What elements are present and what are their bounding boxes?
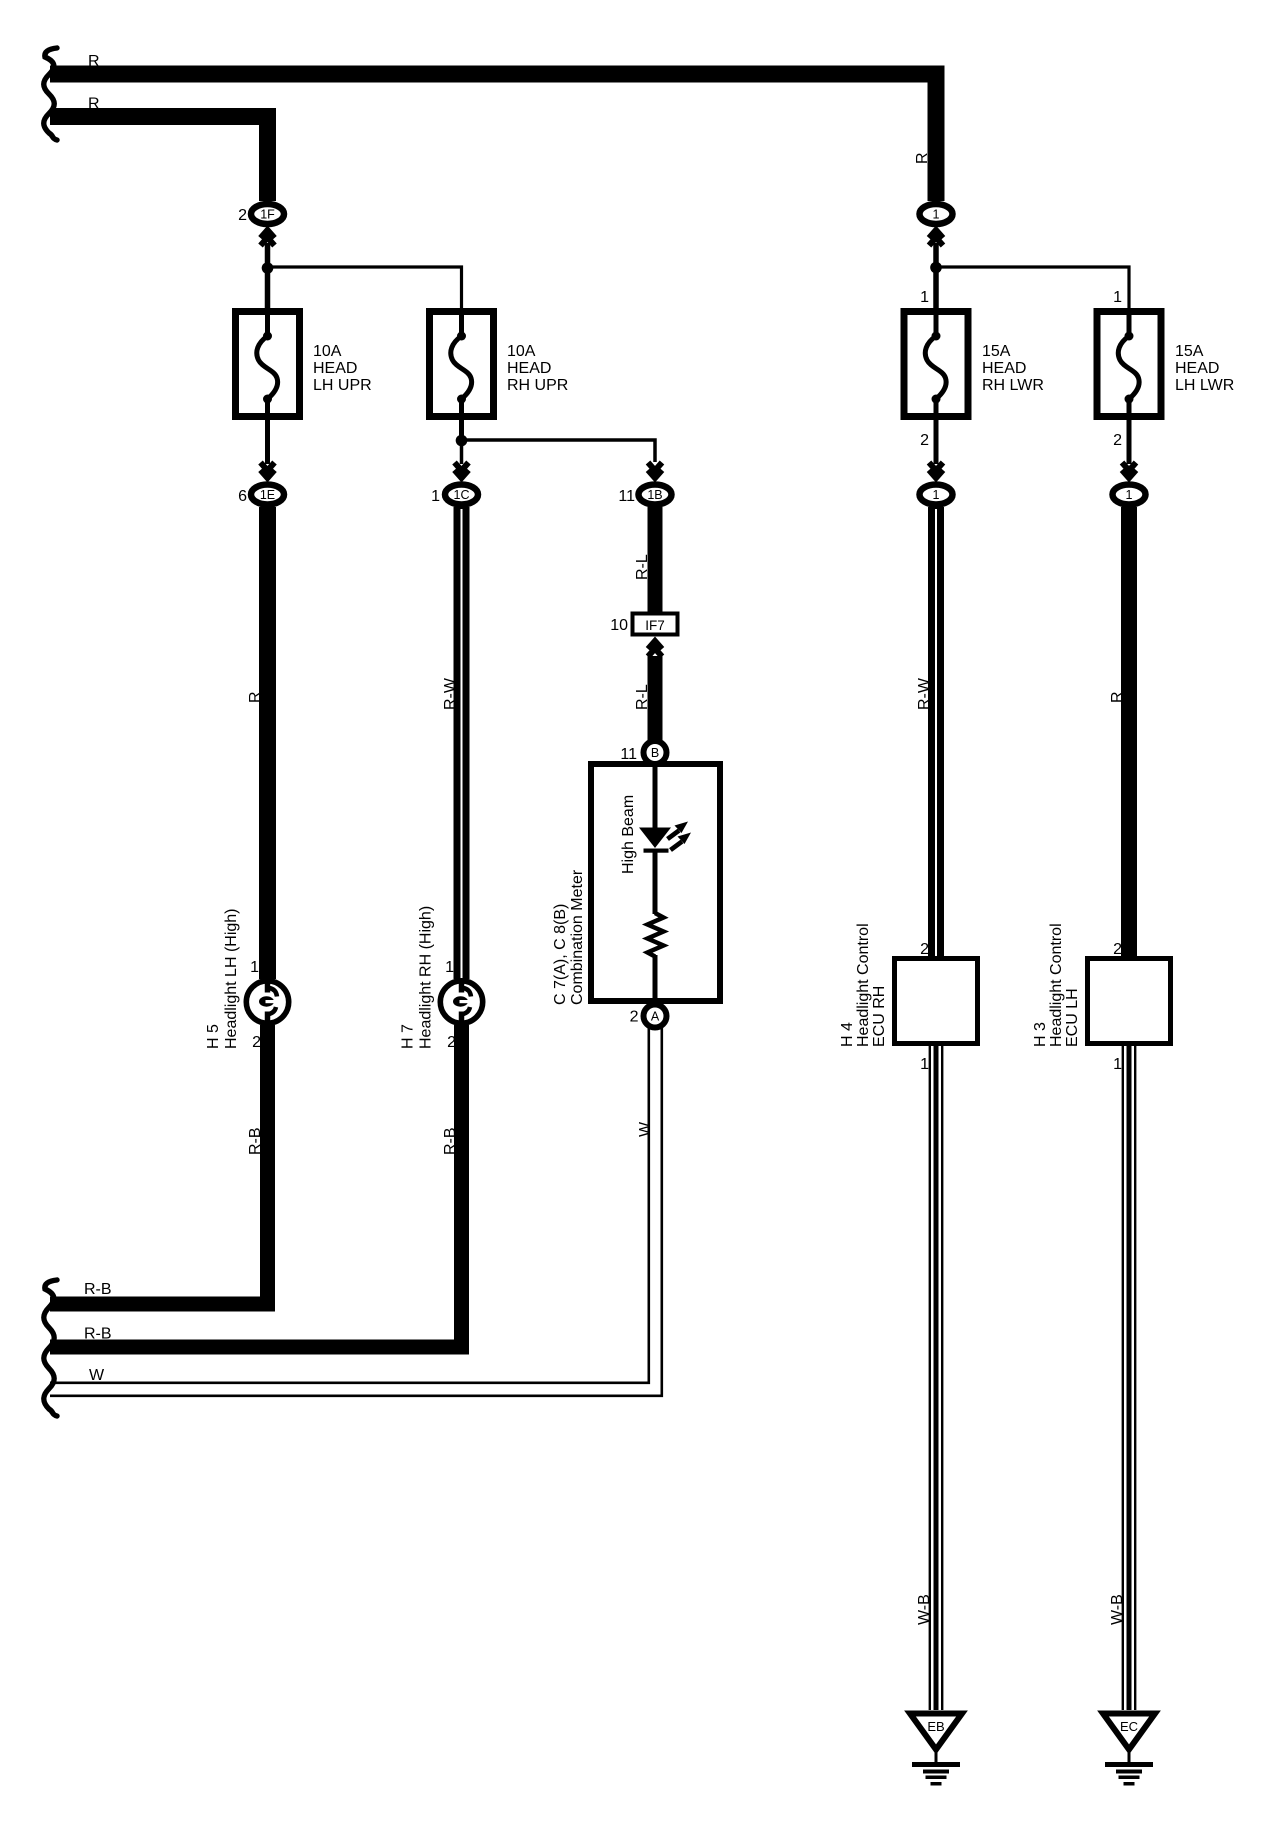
- label R rotated (ECU LH feed): [1109, 691, 1126, 703]
- fuse 10A HEAD LH UPR: [236, 311, 300, 423]
- pin 1 label LH LWR fuse: [1113, 289, 1122, 306]
- wire W-B from ECU LH to ground EC: [1123, 1046, 1135, 1710]
- pin 1 label at 1C: [431, 488, 440, 505]
- pin 6 label at 1E: [238, 488, 247, 505]
- svg-text:1: 1: [445, 959, 454, 976]
- meter pin B: [644, 741, 667, 764]
- label R (top feed 2): [88, 96, 100, 113]
- component label ECU RH: [871, 986, 888, 1047]
- svg-text:2: 2: [1113, 432, 1122, 449]
- svg-text:11: 11: [620, 746, 637, 763]
- wire R main feed (top, from break to right fuse block drop): [50, 74, 936, 201]
- component label Headlight Control (RH): [855, 923, 872, 1047]
- svg-text:H 7: H 7: [400, 1024, 417, 1049]
- svg-text:1F: 1F: [260, 208, 275, 222]
- svg-text:R-L: R-L: [634, 554, 651, 580]
- wire jumper to 1B branch: [462, 440, 656, 462]
- wire R-B from headlight RH to break: [50, 1025, 462, 1347]
- LED light arrow 1: [668, 822, 689, 840]
- svg-text:A: A: [651, 1010, 660, 1024]
- arrow up into right connector 1: [929, 230, 943, 246]
- component label Headlight LH (High): [223, 908, 240, 1049]
- svg-text:1E: 1E: [260, 488, 275, 502]
- svg-text:R: R: [1109, 691, 1126, 703]
- headlight control ECU LH box: [1088, 959, 1171, 1044]
- svg-text:6: 6: [238, 488, 247, 505]
- headlight control ECU RH box: [895, 959, 978, 1044]
- svg-text:B: B: [651, 746, 659, 760]
- ground EC: [1103, 1714, 1155, 1786]
- svg-text:R-B: R-B: [84, 1281, 112, 1298]
- pin 2 label ECU RH: [920, 941, 929, 958]
- component label ECU LH: [1064, 988, 1081, 1047]
- svg-text:R-L: R-L: [634, 684, 651, 710]
- pin 1 label ECU RH: [920, 1056, 929, 1073]
- pin 2 label RH LWR fuse: [920, 432, 929, 449]
- bulb H7 headlight RH high: [440, 981, 482, 1023]
- wire break squiggle top-left: [44, 48, 57, 140]
- svg-text:R: R: [88, 96, 100, 113]
- svg-text:W-B: W-B: [1109, 1594, 1126, 1625]
- component label Headlight Control (LH): [1048, 923, 1065, 1047]
- pin 1 label headlight RH: [445, 959, 454, 976]
- wire R-L 1B to IF7: [648, 507, 663, 613]
- svg-text:C 7(A), C 8(B): C 7(A), C 8(B): [552, 904, 569, 1005]
- combination meter box: [591, 764, 720, 1001]
- pin 2 label LH LWR fuse: [1113, 432, 1122, 449]
- label R-W rotated (H7 feed): [442, 677, 459, 710]
- label W rotated (meter out): [637, 1121, 654, 1137]
- svg-text:1: 1: [250, 959, 259, 976]
- fuse label 10A HEAD LH UPR: [313, 343, 372, 394]
- svg-text:1: 1: [1126, 488, 1133, 502]
- label R (top feed 1): [88, 53, 100, 70]
- arrow down into right connector (RH LWR): [929, 463, 943, 479]
- wire break squiggle bottom-left: [44, 1280, 57, 1416]
- bulb H5 headlight LH high: [246, 981, 288, 1023]
- svg-text:R: R: [247, 691, 264, 703]
- pin 1 label RH LWR fuse: [920, 289, 929, 306]
- junction connector IF7: [633, 614, 678, 635]
- svg-text:R: R: [914, 152, 931, 164]
- svg-text:2: 2: [920, 432, 929, 449]
- arrow up into IF7: [648, 641, 662, 657]
- svg-text:10A: 10A: [313, 343, 342, 360]
- svg-text:Headlight RH (High): Headlight RH (High): [418, 906, 435, 1049]
- meter internal resistor: [648, 913, 664, 957]
- junction node below 1F: [262, 262, 274, 274]
- svg-text:2: 2: [920, 941, 929, 958]
- meter pin A: [644, 1005, 667, 1028]
- wire RH UPR fuse to junction: [459, 420, 464, 443]
- wire W from meter pin A to break (hollow): [50, 1028, 662, 1396]
- component label H 3: [1032, 1022, 1049, 1047]
- wire from right arrow to junction: [933, 243, 939, 311]
- svg-text:R: R: [88, 53, 100, 70]
- label R-W rotated (ECU RH feed): [916, 677, 933, 710]
- svg-text:HEAD: HEAD: [1175, 360, 1219, 377]
- svg-text:10A: 10A: [507, 343, 536, 360]
- component label H 7: [400, 1024, 417, 1049]
- svg-text:Combination Meter: Combination Meter: [569, 869, 586, 1005]
- label R-L rotated (upper): [634, 554, 651, 580]
- pin 10 label at IF7: [610, 617, 628, 634]
- label W-B rotated (EC): [1109, 1594, 1126, 1625]
- svg-text:1: 1: [933, 488, 940, 502]
- pin 1 label ECU LH: [1113, 1056, 1122, 1073]
- svg-text:2: 2: [1113, 941, 1122, 958]
- fuse 15A HEAD RH LWR: [904, 311, 968, 423]
- wire R-L IF7 to meter pin B: [648, 656, 663, 743]
- svg-text:1: 1: [1113, 289, 1122, 306]
- component label H 5: [205, 1024, 222, 1049]
- wire R-W right oval to ECU RH: [928, 507, 944, 958]
- label High Beam rotated: [620, 795, 637, 874]
- pin 11 label at 1B: [618, 488, 635, 505]
- svg-text:LH UPR: LH UPR: [313, 377, 372, 394]
- svg-text:W-B: W-B: [916, 1594, 933, 1625]
- svg-text:R-W: R-W: [442, 677, 459, 710]
- connector 1 below RH LWR fuse: [920, 485, 953, 505]
- wire R second feed (to 1F drop): [50, 117, 268, 202]
- wire W-B from ECU RH to ground EB: [930, 1046, 942, 1710]
- wire R right oval to ECU LH: [1121, 507, 1137, 958]
- pin 11 label at meter pin B: [620, 746, 637, 763]
- svg-text:1: 1: [431, 488, 440, 505]
- label R-B (bottom feed 2): [84, 1326, 112, 1343]
- pin 1 label headlight LH: [250, 959, 259, 976]
- svg-text:HEAD: HEAD: [313, 360, 357, 377]
- fuse label 10A HEAD RH UPR: [507, 343, 568, 394]
- wire RH LWR fuse to arrow: [934, 420, 939, 464]
- pin 2 label ECU LH: [1113, 941, 1122, 958]
- label R-B rotated (H7 out): [442, 1127, 459, 1155]
- label R-B rotated (H5 out): [247, 1127, 264, 1155]
- wire LH LWR fuse to arrow: [1127, 420, 1132, 464]
- svg-text:15A: 15A: [1175, 343, 1204, 360]
- svg-text:1: 1: [920, 1056, 929, 1073]
- arrow down into 1C: [455, 463, 469, 479]
- LED cathode bar: [644, 849, 669, 853]
- component label Headlight RH (High): [418, 906, 435, 1049]
- pin 2 label headlight LH: [252, 1034, 261, 1051]
- connector 1F: [251, 204, 284, 224]
- ground EB: [910, 1714, 962, 1786]
- fuse 10A HEAD RH UPR: [430, 311, 494, 423]
- connector 1B: [639, 485, 672, 505]
- svg-text:1C: 1C: [454, 488, 470, 502]
- svg-text:2: 2: [630, 1009, 639, 1026]
- svg-text:Headlight Control: Headlight Control: [1048, 923, 1065, 1047]
- LED light arrow 2: [671, 833, 692, 851]
- label R-B (bottom feed 1): [84, 1281, 112, 1298]
- svg-text:R-B: R-B: [247, 1127, 264, 1155]
- component label C 7(A), C 8(B): [552, 904, 569, 1005]
- meter internal wire resistor to pin A: [653, 955, 658, 1004]
- svg-text:H 4: H 4: [839, 1022, 856, 1047]
- svg-text:HEAD: HEAD: [507, 360, 551, 377]
- arrow down into 1B: [648, 463, 662, 479]
- label R-L rotated (lower): [634, 684, 651, 710]
- junction node below right connector: [930, 262, 942, 274]
- component label Combination Meter: [569, 869, 586, 1005]
- connector 1 below LH LWR fuse: [1113, 485, 1146, 505]
- wire jumper to LH LWR fuse: [936, 267, 1129, 311]
- svg-text:ECU RH: ECU RH: [871, 986, 888, 1047]
- label R rotated (H5 feed): [247, 691, 264, 703]
- wire R to headlight LH: [259, 507, 276, 979]
- fuse label 15A HEAD LH LWR: [1175, 343, 1234, 394]
- svg-text:11: 11: [618, 488, 635, 505]
- pin 2 label headlight RH: [447, 1034, 456, 1051]
- fuse 15A HEAD LH LWR: [1097, 311, 1161, 423]
- svg-text:W: W: [637, 1121, 654, 1137]
- svg-text:2: 2: [252, 1034, 261, 1051]
- LED high beam indicator (triangle): [639, 828, 671, 849]
- junction node below RH UPR fuse: [456, 435, 468, 447]
- arrow down into right connector (LH LWR): [1122, 463, 1136, 479]
- meter internal wire LED to resistor: [653, 851, 658, 914]
- fuse label 15A HEAD RH LWR: [982, 343, 1044, 394]
- svg-text:IF7: IF7: [645, 618, 665, 633]
- svg-text:15A: 15A: [982, 343, 1011, 360]
- svg-text:EC: EC: [1120, 1719, 1138, 1734]
- svg-text:LH LWR: LH LWR: [1175, 377, 1234, 394]
- svg-text:ECU LH: ECU LH: [1064, 988, 1081, 1047]
- svg-text:Headlight Control: Headlight Control: [855, 923, 872, 1047]
- svg-text:R-B: R-B: [442, 1127, 459, 1155]
- svg-text:Headlight LH (High): Headlight LH (High): [223, 908, 240, 1049]
- svg-text:10: 10: [610, 617, 628, 634]
- wire R-W to headlight RH: [454, 507, 470, 979]
- svg-text:W: W: [89, 1367, 105, 1384]
- svg-text:HEAD: HEAD: [982, 360, 1026, 377]
- svg-text:R-W: R-W: [916, 677, 933, 710]
- connector 1 (right main): [920, 204, 953, 224]
- connector 1E: [251, 485, 284, 505]
- wire LH UPR fuse to 1E arrow: [265, 420, 270, 464]
- wire junction to 1C arrow: [460, 440, 464, 464]
- svg-text:EB: EB: [927, 1719, 944, 1734]
- svg-text:H 5: H 5: [205, 1024, 222, 1049]
- connector 1C: [445, 485, 478, 505]
- meter internal wire B to LED: [653, 764, 658, 828]
- pin 2 label at 1F: [238, 207, 247, 224]
- component label H 4: [839, 1022, 856, 1047]
- svg-text:2: 2: [238, 207, 247, 224]
- svg-text:1: 1: [1113, 1056, 1122, 1073]
- wire from 1F arrow to junction: [265, 243, 271, 311]
- label R (rotated, right vertical feed): [914, 152, 931, 164]
- label W (bottom feed): [89, 1367, 105, 1384]
- svg-text:RH UPR: RH UPR: [507, 377, 568, 394]
- arrow down into 1E: [261, 463, 275, 479]
- svg-text:RH LWR: RH LWR: [982, 377, 1044, 394]
- svg-text:H 3: H 3: [1032, 1022, 1049, 1047]
- svg-text:R-B: R-B: [84, 1326, 112, 1343]
- svg-text:1: 1: [920, 289, 929, 306]
- svg-text:High Beam: High Beam: [620, 795, 637, 874]
- pin 2 label at meter pin A: [630, 1009, 639, 1026]
- svg-text:1: 1: [933, 208, 940, 222]
- wire jumper to RH UPR fuse: [268, 267, 462, 311]
- svg-text:1B: 1B: [647, 488, 662, 502]
- arrow up into 1F: [261, 230, 275, 246]
- wire R-B from headlight LH to break: [50, 1025, 268, 1304]
- label W-B rotated (EB): [916, 1594, 933, 1625]
